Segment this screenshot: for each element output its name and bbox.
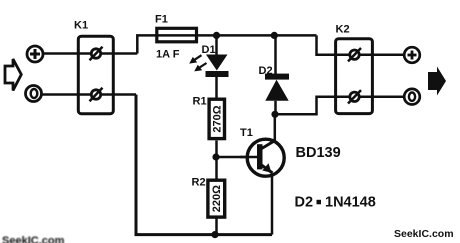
wire through K2 bottom xyxy=(335,96,404,99)
terminal 0 (output) xyxy=(404,89,420,105)
wire top to K2 xyxy=(317,35,336,54)
LED D1 xyxy=(202,35,229,77)
D1 light arrows xyxy=(189,55,206,71)
svg-text:R2: R2 xyxy=(192,177,206,189)
K2 switch contact top xyxy=(348,48,361,61)
resistor R2 220 ohm xyxy=(192,177,225,218)
wire through K2 top xyxy=(335,53,404,56)
terminal 0 (input) xyxy=(26,86,42,102)
svg-text:D2: D2 xyxy=(295,195,314,211)
fuse F1 xyxy=(155,14,198,61)
resistor R1 270 ohm xyxy=(193,96,225,139)
output arrow xyxy=(428,67,446,96)
wire through K1 bottom xyxy=(79,93,136,96)
input arrow xyxy=(5,59,21,91)
wire R1 to node xyxy=(215,141,218,181)
wire D1 to R1 xyxy=(215,77,218,99)
svg-text:D1: D1 xyxy=(202,44,216,56)
wire riser K1 to fuse xyxy=(137,35,155,53)
svg-text:F1: F1 xyxy=(155,14,168,26)
bottom rail and left return wire xyxy=(136,95,272,235)
svg-text:1A F: 1A F xyxy=(156,49,180,61)
terminal + (input) xyxy=(27,46,43,62)
svg-text:1N4148: 1N4148 xyxy=(325,195,376,211)
wire + to K1 xyxy=(44,52,79,55)
svg-text:T1: T1 xyxy=(240,127,253,139)
K1 switch contact top xyxy=(90,47,103,60)
relay contact block K1 xyxy=(74,20,113,114)
svg-text:K2: K2 xyxy=(336,24,350,36)
relay contact block K2 xyxy=(336,24,373,114)
wire R2 to bottom rail xyxy=(215,217,218,235)
wire through K1 top to fuse riser xyxy=(79,52,137,55)
svg-text:BD139: BD139 xyxy=(296,145,341,161)
node R1/R2/base xyxy=(212,153,219,160)
top supply wire xyxy=(198,34,317,37)
transistor T1 BD139 xyxy=(240,127,284,176)
svg-text:270Ω: 270Ω xyxy=(212,105,224,132)
label D2 = 1N4148 xyxy=(295,195,376,211)
svg-text:SeekIC.com: SeekIC.com xyxy=(394,228,454,240)
K2 switch contact bottom xyxy=(348,90,361,103)
svg-text:R1: R1 xyxy=(193,96,207,108)
svg-text:220Ω: 220Ω xyxy=(211,185,223,212)
emitter wire down to rail xyxy=(271,174,274,235)
wire 0 to K1 xyxy=(43,93,80,96)
wire node to K2 bottom xyxy=(275,97,335,115)
collector wire up to node xyxy=(274,114,277,141)
diode D2 xyxy=(259,35,290,114)
base wire to T1 xyxy=(216,156,257,159)
node R2 bottom xyxy=(211,231,218,238)
node at D2 cathode xyxy=(271,32,278,39)
node collector/D2 xyxy=(271,111,278,118)
terminal + (output) xyxy=(404,47,420,63)
node at D1 anode xyxy=(213,32,220,39)
svg-text:SeekIC.com: SeekIC.com xyxy=(2,235,65,243)
svg-text:K1: K1 xyxy=(74,20,88,32)
K1 switch contact bottom xyxy=(90,88,103,101)
